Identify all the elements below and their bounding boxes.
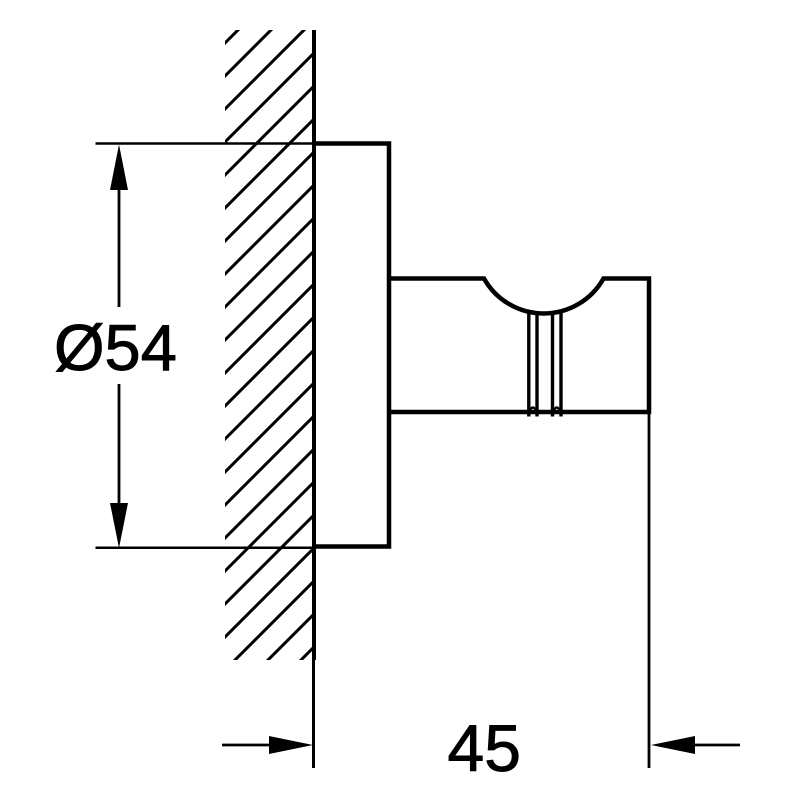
diameter dimension line upper <box>118 188 121 307</box>
diameter dimension line lower <box>118 384 121 504</box>
wall extension line (thin, to bottom dimension) <box>312 660 315 768</box>
svg-text:45: 45 <box>448 711 521 785</box>
dimension line 45 right <box>675 744 740 747</box>
svg-text:Ø54: Ø54 <box>54 311 177 384</box>
hook body outline <box>391 279 649 413</box>
arrow up <box>110 145 128 191</box>
right extension line (45 dim) <box>648 414 651 768</box>
arrow left <box>651 736 695 754</box>
arrow right <box>269 736 313 754</box>
hook neck line 4 <box>559 310 562 417</box>
mounting plate outline <box>314 144 389 547</box>
arrow down <box>110 503 128 548</box>
neck foot fillet right <box>553 408 562 414</box>
bottom extension line (diameter dim) <box>96 546 315 549</box>
hook neck line 2 <box>535 312 538 417</box>
dimension line 45 left <box>222 744 290 747</box>
wall line (thick) <box>312 30 316 660</box>
hook neck line 1 <box>527 310 530 417</box>
hook neck line 3 <box>551 312 554 417</box>
top extension line (diameter dim) <box>96 142 315 145</box>
neck foot fillet left <box>529 408 537 414</box>
